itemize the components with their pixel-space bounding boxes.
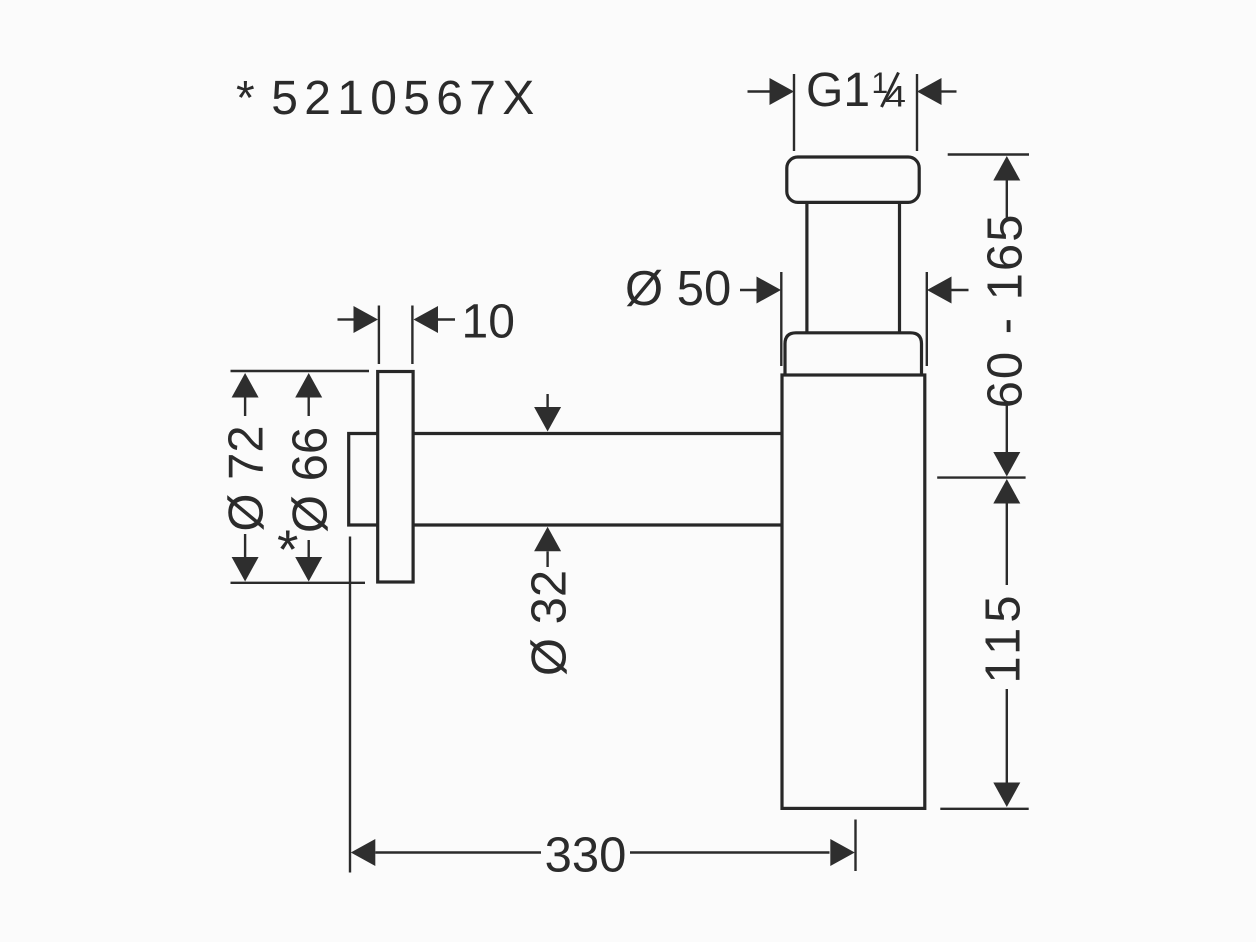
svg-text:60 - 165: 60 - 165	[979, 213, 1033, 409]
dimension G1 1/4: left arrow	[748, 78, 795, 105]
dimension 330: right line and arrow	[630, 839, 855, 866]
dimension D50: text	[625, 262, 731, 316]
trap cap nut (top rounded rectangle)	[787, 157, 919, 202]
svg-text:Ø 32: Ø 32	[523, 570, 577, 676]
dimension 10: left arrow	[338, 306, 379, 333]
dimension 115: lower shaft and down arrow	[993, 689, 1020, 807]
svg-text:Ø 50: Ø 50	[625, 262, 731, 316]
dimension D32: upper shaft and down arrow	[534, 394, 561, 432]
dimension D72: text	[220, 425, 274, 531]
dimension D50: left arrow	[740, 277, 781, 304]
dimension 60-165: top tick line	[948, 153, 1029, 155]
dimension D66: text	[284, 427, 338, 533]
horizontal outlet pipe	[413, 434, 782, 526]
wall flange (tall thin rectangle)	[378, 372, 413, 583]
dimension 115: text	[977, 590, 1031, 683]
svg-text:Ø 72: Ø 72	[220, 425, 274, 531]
dimension D72: lower shaft and down arrow	[232, 534, 259, 582]
svg-text:*: *	[277, 518, 298, 580]
dimension 60-165: text	[979, 213, 1033, 409]
dimension 330: left extension line	[349, 537, 351, 873]
wall-side pipe stub	[349, 434, 378, 526]
svg-text:115: 115	[977, 590, 1031, 683]
svg-text:330: 330	[545, 829, 627, 883]
dimension G1 1/4: text	[806, 64, 906, 117]
dimension D50: right arrow	[927, 277, 969, 304]
dimension 330: text	[545, 829, 627, 883]
dimension D72: up arrow and shaft	[232, 373, 259, 416]
dimension D66: asterisk footnote mark	[277, 518, 298, 580]
svg-text:4: 4	[885, 81, 906, 114]
dimension D50: extension lines	[781, 272, 927, 366]
dimension 10: text	[462, 296, 515, 349]
dimension 115: bottom tick line	[940, 808, 1028, 810]
dimension D32: text	[523, 570, 577, 676]
dimension 60-165 / 115 shared tick line	[937, 476, 1025, 478]
dimensions D72/D66: bottom tick line	[231, 582, 366, 584]
dimension D66: lower shaft and down arrow	[295, 540, 322, 582]
dimensions D72/D66: top tick line	[231, 370, 370, 372]
trap body (large rectangle)	[782, 375, 925, 808]
trap collar (rounded shoulder above body)	[785, 333, 922, 375]
part number label *5210567X	[236, 72, 541, 125]
svg-text:10: 10	[462, 296, 515, 349]
dimension D66: up arrow and shaft	[295, 373, 322, 416]
dimension 330: right extension line	[854, 820, 856, 872]
dimension 330: left arrow and line	[351, 839, 541, 866]
dimension G1 1/4: right arrow	[917, 78, 957, 105]
dimension G1 1/4: extension lines	[794, 74, 917, 151]
dimension D32: lower up arrow and shaft	[534, 527, 561, 567]
dimension 115: up arrow and shaft	[993, 479, 1020, 585]
svg-text:G1: G1	[806, 64, 870, 117]
dimension 60-165: up arrow and shaft	[993, 156, 1020, 219]
trap neck tube (vertical pipe below cap)	[807, 202, 900, 332]
dimension 10: extension lines	[379, 306, 413, 365]
dimension 10: right arrow	[414, 306, 456, 333]
svg-text:* 5210567X: * 5210567X	[236, 72, 541, 125]
dimension 60-165: lower shaft and down arrow	[993, 403, 1020, 477]
